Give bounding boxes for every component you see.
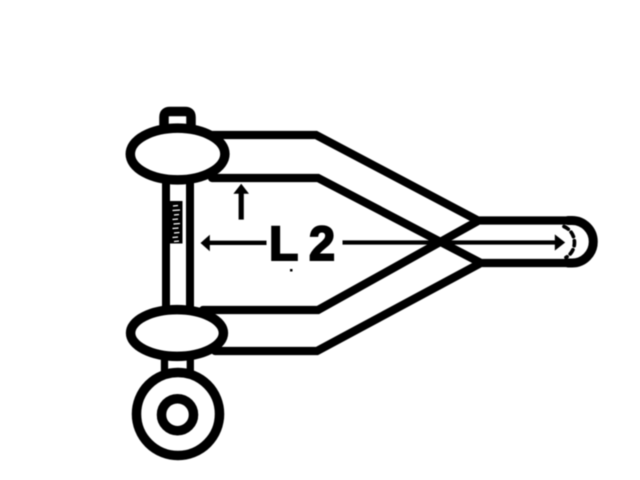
svg-text:2: 2 — [309, 218, 335, 271]
svg-text:L: L — [269, 218, 298, 271]
